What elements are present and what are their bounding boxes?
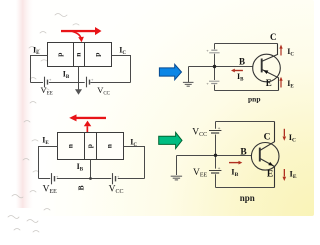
junction node B <box>214 154 217 157</box>
blue block arrow <box>159 64 181 80</box>
svg-text:E: E <box>266 78 272 88</box>
wires: collector lead + right drop <box>112 56 131 83</box>
svg-text:+: + <box>49 77 52 82</box>
emitter diagonal + wire <box>260 158 275 187</box>
junction node B <box>213 65 216 68</box>
top wire <box>216 121 275 123</box>
svg-text:IE: IE <box>290 168 297 180</box>
collector diagonal + wire <box>262 44 278 62</box>
curved red branch arrow into base <box>73 32 84 43</box>
base bar <box>259 148 261 162</box>
svg-text:IB: IB <box>231 167 238 179</box>
svg-text:+: + <box>218 127 221 132</box>
svg-text:IE: IE <box>42 135 49 146</box>
IC red arrow (down) <box>283 129 287 141</box>
IC red arrow (up) <box>279 45 282 56</box>
wires: emitter lead + left drop <box>31 56 48 83</box>
svg-text:IB: IB <box>63 70 70 81</box>
svg-text:IB: IB <box>77 162 84 173</box>
bottom bus wire <box>31 82 131 84</box>
battery VEE (bottom) <box>209 171 221 174</box>
svg-text:VEE: VEE <box>41 85 53 96</box>
svg-text:VEE: VEE <box>43 185 58 196</box>
ground symbol <box>171 176 182 180</box>
svg-text:VCC: VCC <box>97 85 110 96</box>
ground symbol <box>183 82 194 86</box>
svg-text:n: n <box>74 52 83 57</box>
svg-text:C: C <box>264 132 271 142</box>
svg-text:IE: IE <box>287 79 294 90</box>
divider 2 <box>96 133 98 160</box>
IB red arrow (left) <box>231 69 243 73</box>
big red arrow (flow left) <box>69 114 106 121</box>
svg-text:p: p <box>55 53 64 57</box>
svg-text:pnp: pnp <box>248 94 261 103</box>
base wire <box>189 66 253 68</box>
bottom wire <box>215 90 279 92</box>
battery VCC (top) <box>209 131 221 134</box>
pnp body box <box>48 43 112 67</box>
svg-text:p: p <box>85 144 94 148</box>
svg-text:IC: IC <box>287 47 294 58</box>
svg-text:n: n <box>65 143 74 148</box>
svg-text:IB: IB <box>237 72 244 83</box>
top wire <box>215 43 278 45</box>
transistor U2 circle (npn) <box>251 143 279 171</box>
emitter diagonal + wire <box>262 69 279 90</box>
ground riser <box>176 156 178 176</box>
transistor U1 circle (pnp) <box>253 54 281 82</box>
svg-text:IC: IC <box>130 138 137 149</box>
svg-text:B: B <box>240 147 247 157</box>
svg-text:IC: IC <box>289 132 296 144</box>
ground riser wire <box>188 67 190 83</box>
left rail with battery gaps <box>214 44 216 91</box>
wires: emitter lead + left drop <box>39 147 58 179</box>
small red arrow out of base (up) <box>84 121 92 133</box>
battery VEE <box>52 173 55 184</box>
pnp emitter arrowhead (points to base) <box>262 68 268 74</box>
battery VCC (bottom) <box>209 81 219 83</box>
svg-text:+: + <box>206 48 209 53</box>
wires: collector lead + right drop <box>124 147 145 179</box>
svg-text:+: + <box>117 174 120 179</box>
battery VEE <box>45 77 48 88</box>
battery VCC <box>87 77 90 88</box>
svg-text:C: C <box>270 32 277 42</box>
svg-text:+: + <box>218 167 221 172</box>
divider 1 <box>84 133 86 160</box>
big red arrow (conventional flow right) <box>61 27 102 35</box>
npn body box <box>58 133 124 160</box>
bottom wire <box>216 187 275 189</box>
divider 1 <box>73 43 75 67</box>
IE red arrow (up) <box>279 77 282 88</box>
svg-text:IE: IE <box>33 45 40 56</box>
svg-text:VCC: VCC <box>192 128 207 139</box>
bottom bus wire <box>39 178 145 180</box>
divider 2 <box>84 43 86 67</box>
base wire <box>177 155 252 157</box>
base bar <box>261 59 263 73</box>
svg-text:n: n <box>105 143 114 148</box>
IB red arrow (right) <box>229 161 242 165</box>
svg-text:IC: IC <box>119 45 126 56</box>
base wire with down arrow (ground) <box>78 67 80 91</box>
svg-text:VEE: VEE <box>193 168 208 179</box>
svg-text:B: B <box>77 185 86 190</box>
base wire down to bus <box>90 160 92 179</box>
svg-text:p: p <box>93 53 102 57</box>
battery VCC <box>113 173 116 184</box>
battery VEE (top) <box>209 50 219 53</box>
svg-text:VCC: VCC <box>109 185 124 196</box>
svg-text:+: + <box>91 77 94 82</box>
svg-text:npn: npn <box>240 193 255 203</box>
svg-text:+: + <box>206 81 209 86</box>
npn emitter arrowhead (points out) <box>268 162 274 168</box>
svg-text:+: + <box>56 174 59 179</box>
IE red arrow (down) <box>283 169 287 181</box>
svg-text:B: B <box>239 56 245 66</box>
collector diagonal + wire <box>260 122 275 151</box>
svg-text:E: E <box>267 170 273 180</box>
left rail with battery gaps <box>215 122 217 188</box>
green block arrow <box>159 132 182 148</box>
